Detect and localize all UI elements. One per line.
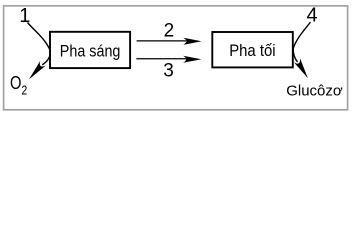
outer frame xyxy=(4,6,348,110)
arrow 2 shaft xyxy=(137,40,186,42)
svg-text:Pha tối: Pha tối xyxy=(229,41,275,60)
svg-text:3: 3 xyxy=(163,60,174,81)
arrowhead at O2 xyxy=(29,61,46,80)
arrow 2 head xyxy=(183,38,201,45)
arrow 3 shaft xyxy=(136,58,186,60)
curve 1 to O2 xyxy=(28,23,51,65)
curve 4 to Glucozo xyxy=(293,22,310,62)
arrowhead at Glucozo xyxy=(294,58,308,78)
box Pha sang xyxy=(50,32,130,68)
box Pha toi xyxy=(212,32,292,67)
svg-text:Pha sáng: Pha sáng xyxy=(60,41,121,60)
arrow 3 head xyxy=(183,56,201,63)
svg-text:2: 2 xyxy=(164,21,175,42)
svg-text:Glucôzơ: Glucôzơ xyxy=(286,83,343,100)
svg-text:4: 4 xyxy=(307,5,318,27)
